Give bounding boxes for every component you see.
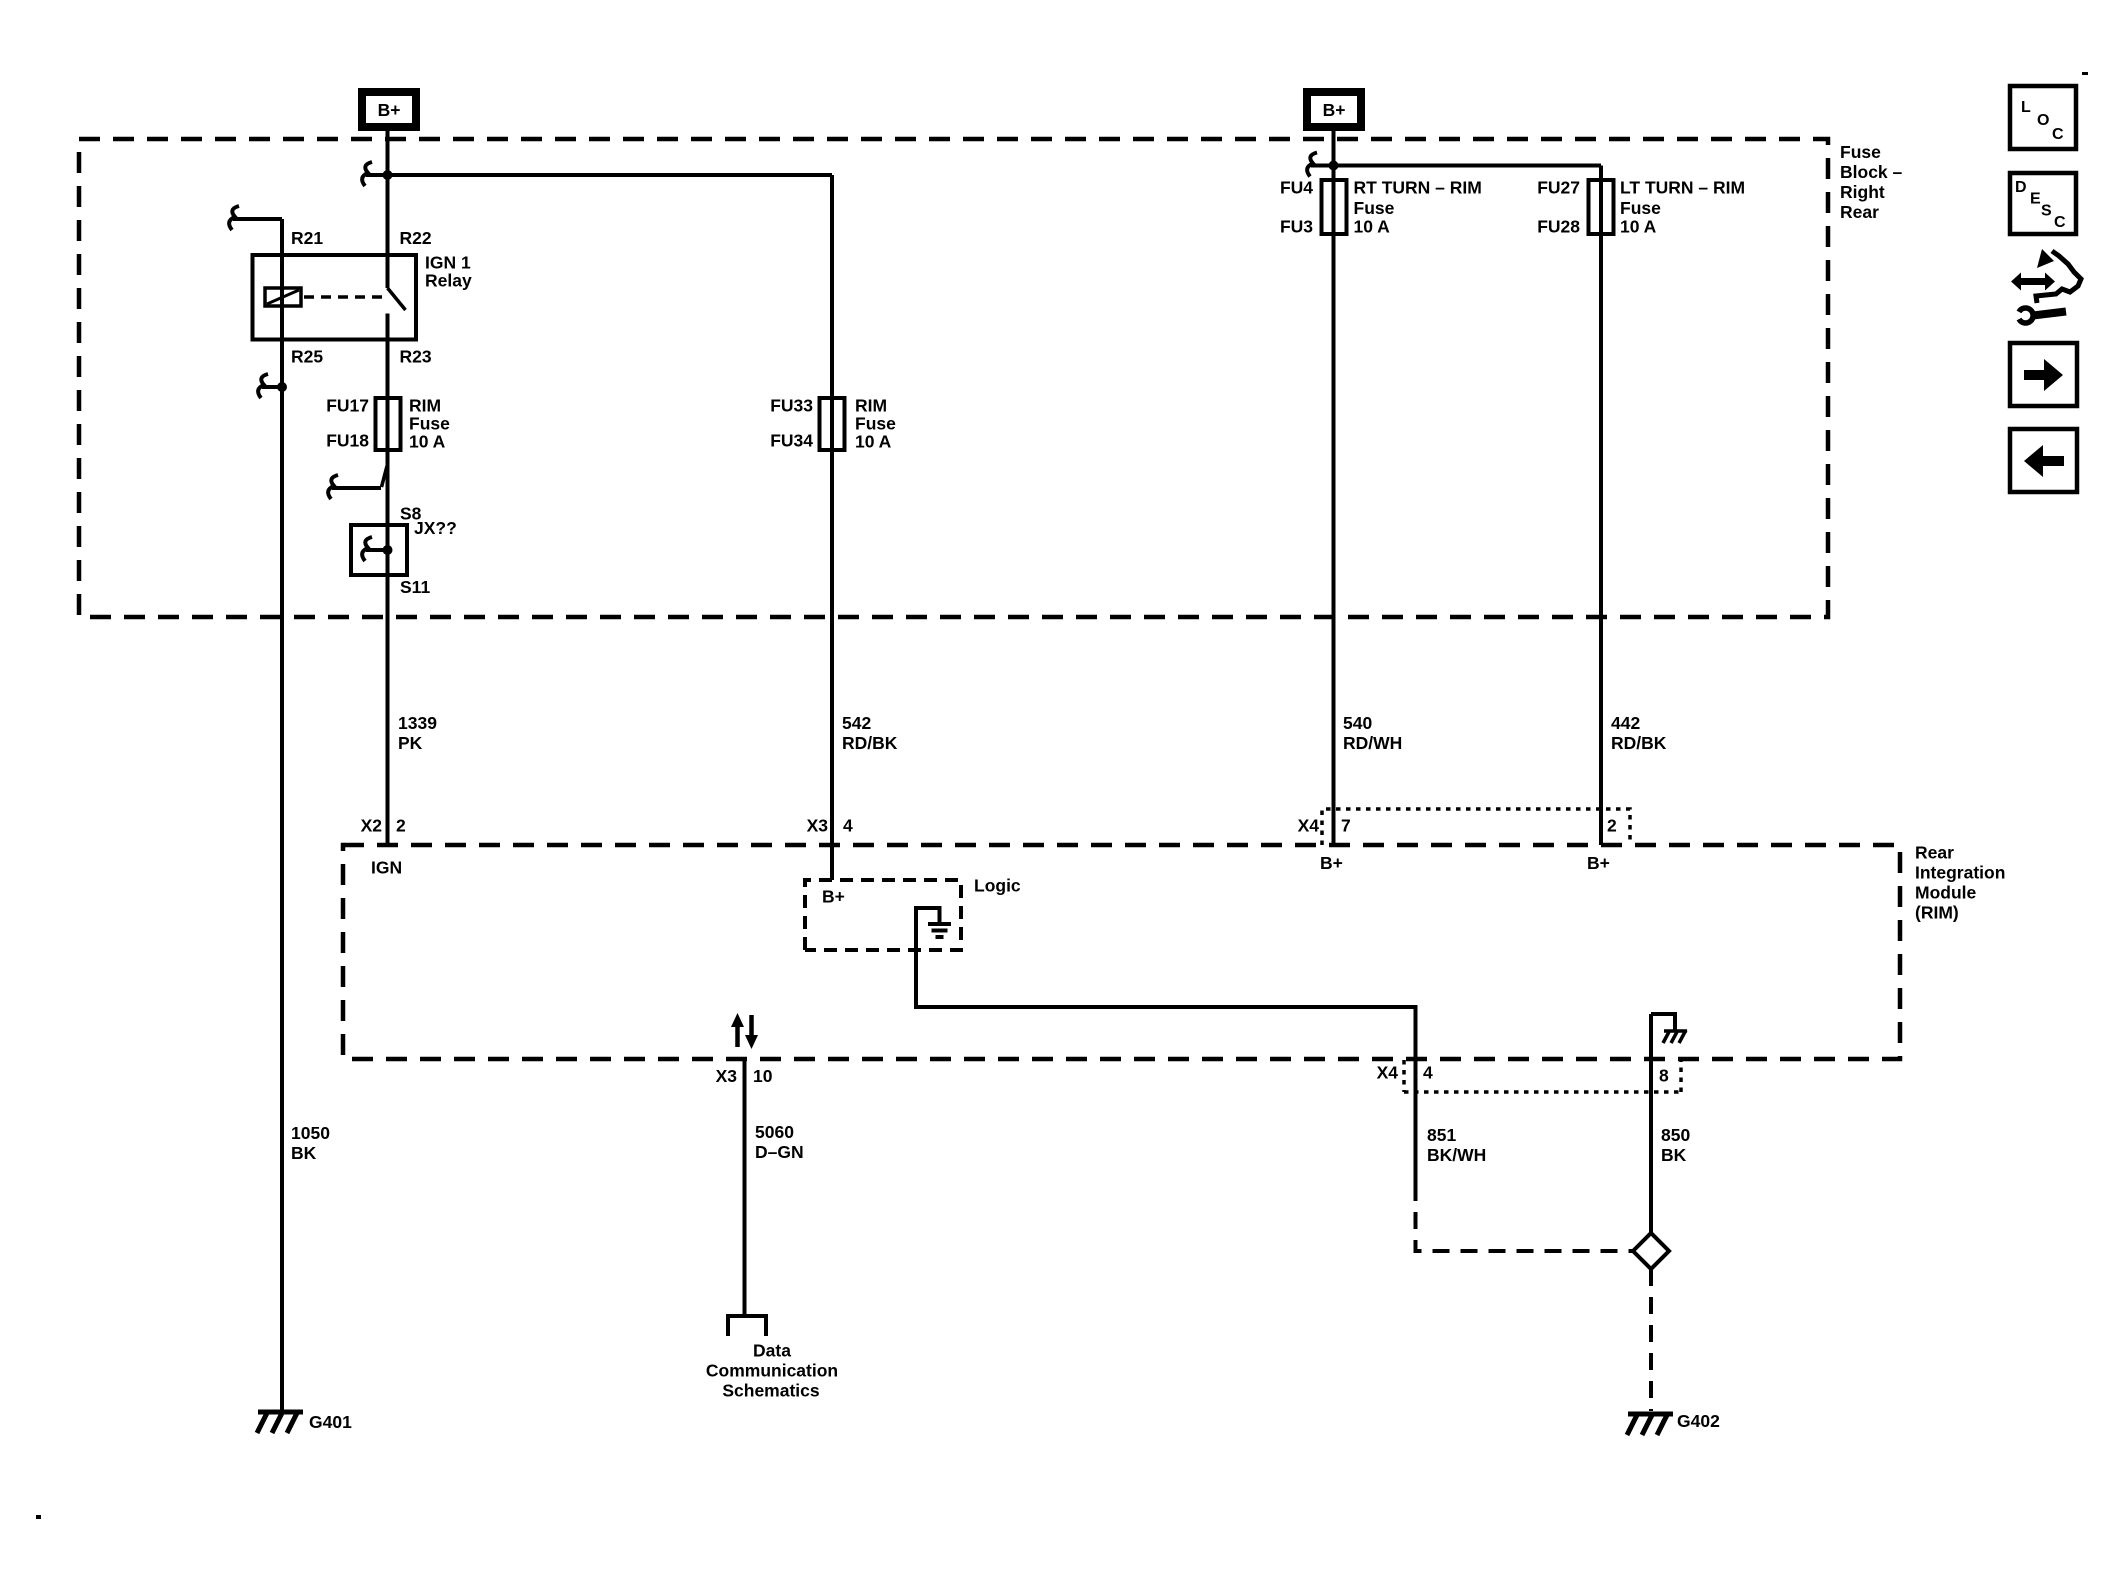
svg-text:S: S (2041, 203, 2052, 220)
svg-text:Fuse: Fuse (1840, 142, 1881, 162)
svg-text:LT TURN – RIM: LT TURN – RIM (1620, 178, 1745, 198)
svg-text:Fuse: Fuse (855, 414, 896, 434)
wire: FU33 branch down to logic box (830, 175, 834, 880)
power symbol B+ (right battery feed) (1303, 88, 1365, 131)
svg-text:Communication: Communication (706, 1361, 838, 1381)
wire: lower part of switch leg down to RIM connector (386, 314, 390, 846)
wire stub with hook inside junction block (366, 548, 388, 552)
svg-text:C: C (2052, 126, 2064, 143)
svg-text:FU18: FU18 (326, 431, 369, 451)
svg-text:BK: BK (1661, 1145, 1687, 1165)
icon next arrow button (2010, 343, 2077, 406)
wire: R21 feed with continuation hook (233, 219, 282, 1413)
svg-text:PK: PK (398, 733, 423, 753)
svg-text:FU33: FU33 (770, 396, 813, 416)
svg-text:FU4: FU4 (1280, 178, 1313, 198)
icon DESC button (2010, 173, 2076, 234)
dashed ground wire: splice to G402 (1649, 1269, 1653, 1411)
svg-text:FU17: FU17 (326, 396, 369, 416)
svg-text:Right: Right (1840, 182, 1885, 202)
splice diamond S402 (1633, 1233, 1669, 1269)
svg-text:FU34: FU34 (770, 431, 813, 451)
svg-text:850: 850 (1661, 1125, 1690, 1145)
chassis ground inside RIM (850 feed) (1651, 1014, 1687, 1043)
svg-text:O: O (2037, 112, 2049, 129)
svg-text:Rear: Rear (1915, 843, 1954, 863)
wire: logic ground to X4-4 (916, 906, 1416, 1184)
svg-text:S11: S11 (400, 577, 430, 597)
wire: X3-10 serial data down (743, 1059, 747, 1315)
svg-text:X2: X2 (361, 816, 383, 836)
svg-text:RT TURN – RIM: RT TURN – RIM (1354, 178, 1482, 198)
junction block JX?? (S8/S11) (351, 525, 407, 575)
svg-text:10 A: 10 A (1354, 217, 1391, 237)
svg-text:FU3: FU3 (1280, 217, 1313, 237)
svg-text:FU27: FU27 (1537, 178, 1580, 198)
svg-text:B+: B+ (378, 100, 401, 120)
ground G401 (257, 1411, 352, 1433)
svg-text:X4: X4 (1377, 1063, 1399, 1083)
serial data arrows at X3-10 (731, 1013, 758, 1049)
svg-text:2: 2 (1607, 816, 1617, 836)
svg-text:7: 7 (1341, 816, 1351, 836)
power symbol B+ (left battery feed) (358, 88, 420, 131)
node: junction dot inside block (383, 545, 393, 555)
svg-text:R22: R22 (400, 228, 432, 248)
svg-text:Fuse: Fuse (1620, 198, 1661, 218)
label Rear Integration Module (RIM) (1915, 843, 2005, 923)
wire stub with hook and junction on R25 leg (262, 385, 282, 389)
svg-text:10 A: 10 A (1620, 217, 1657, 237)
svg-text:10 A: 10 A (855, 432, 892, 452)
wire stub with continuation hook at B+ junction (366, 173, 388, 177)
splice S8 branch stub with hook (332, 486, 381, 490)
svg-text:B+: B+ (1320, 853, 1343, 873)
svg-text:X3: X3 (807, 816, 829, 836)
relay actuator dashed link (304, 295, 383, 299)
svg-text:2: 2 (396, 816, 406, 836)
fuse FU33/FU34 RIM Fuse 10 A (820, 398, 845, 450)
node: junction dot right B+ (1329, 161, 1339, 171)
off-page connector to Data Communication Schematics (728, 1316, 766, 1336)
svg-text:1339: 1339 (398, 713, 437, 733)
signal ground inside logic block (916, 908, 951, 937)
svg-text:X4: X4 (1298, 816, 1320, 836)
svg-text:1050: 1050 (291, 1123, 330, 1143)
wire: right B+ down to RIM X4-7 (1332, 129, 1336, 845)
svg-text:10 A: 10 A (409, 432, 446, 452)
wire stub with hook at right junction (1311, 164, 1334, 168)
svg-text:Rear: Rear (1840, 202, 1879, 222)
svg-text:BK: BK (291, 1143, 317, 1163)
svg-text:Block –: Block – (1840, 162, 1903, 182)
stray mark bottom left (36, 1515, 41, 1519)
svg-text:D: D (2015, 179, 2027, 196)
svg-text:Schematics: Schematics (722, 1381, 820, 1401)
svg-text:X3: X3 (716, 1066, 738, 1086)
svg-text:4: 4 (1423, 1063, 1433, 1083)
svg-text:Relay: Relay (425, 271, 472, 291)
ground G402 (1627, 1411, 1720, 1435)
svg-text:E: E (2030, 191, 2041, 208)
icon LOC button (2010, 86, 2076, 149)
svg-text:Fuse: Fuse (1354, 198, 1395, 218)
icon harness view (double arrow, outline, wrench) (2011, 249, 2081, 323)
wire: B+ down through relay switch to RIM X2-2 (386, 131, 390, 288)
svg-text:10: 10 (753, 1066, 773, 1086)
svg-text:Module: Module (1915, 883, 1977, 903)
relay IGN 1 Relay box (253, 255, 417, 340)
svg-text:FU28: FU28 (1537, 217, 1580, 237)
wire: horizontal bus from B+ junction to FU33 (388, 173, 833, 177)
svg-text:540: 540 (1343, 713, 1372, 733)
svg-text:C: C (2054, 214, 2066, 231)
svg-text:Logic: Logic (974, 876, 1021, 896)
svg-text:542: 542 (842, 713, 871, 733)
svg-text:851: 851 (1427, 1125, 1456, 1145)
icon back arrow button (2010, 429, 2077, 492)
svg-text:R25: R25 (291, 347, 323, 367)
svg-text:RD/BK: RD/BK (842, 733, 898, 753)
dashed ground wire: X4-4 to splice (1416, 1184, 1634, 1251)
svg-text:RIM: RIM (855, 396, 887, 416)
svg-text:IGN 1: IGN 1 (425, 253, 471, 273)
svg-text:442: 442 (1611, 713, 1640, 733)
logic block dashed box (805, 880, 961, 950)
svg-text:D–GN: D–GN (755, 1142, 804, 1162)
Rear Integration Module dashed outline (343, 845, 1900, 1059)
svg-text:B+: B+ (1323, 100, 1346, 120)
fuse FU4/FU3 RT TURN - RIM Fuse 10 A (1322, 180, 1347, 234)
svg-text:RD/BK: RD/BK (1611, 733, 1667, 753)
svg-text:4: 4 (843, 816, 853, 836)
svg-text:8: 8 (1659, 1066, 1669, 1086)
svg-text:RD/WH: RD/WH (1343, 733, 1402, 753)
svg-text:R23: R23 (400, 347, 432, 367)
wire: 850 BK down to splice diamond (1649, 1014, 1653, 1233)
fuse block dashed outline: Fuse Block - Right Rear (79, 139, 1828, 617)
svg-text:Integration: Integration (1915, 863, 2005, 883)
svg-text:Data: Data (753, 1341, 791, 1361)
svg-text:R21: R21 (291, 228, 323, 248)
svg-text:B+: B+ (1587, 853, 1610, 873)
relay switch arm (388, 288, 406, 310)
svg-text:B+: B+ (822, 887, 845, 907)
svg-text:Fuse: Fuse (409, 414, 450, 434)
wire: bus from right B+ junction to FU27 (1334, 166, 1602, 846)
svg-text:5060: 5060 (755, 1122, 794, 1142)
fuse FU27/FU28 LT TURN - RIM Fuse 10 A (1589, 180, 1614, 234)
fuse FU17/FU18 RIM Fuse 10 A (376, 398, 401, 450)
svg-text:G401: G401 (309, 1412, 352, 1432)
svg-text:JX??: JX?? (414, 518, 457, 538)
svg-text:L: L (2021, 99, 2031, 116)
svg-text:IGN: IGN (371, 858, 402, 878)
svg-text:G402: G402 (1677, 1411, 1720, 1431)
label Fuse Block - Right Rear (1840, 142, 1903, 222)
connector X4 pins 4 and 8 dotted box (1404, 1060, 1681, 1092)
svg-text:BK/WH: BK/WH (1427, 1145, 1486, 1165)
stray mark top right (2082, 72, 2088, 75)
relay coil (265, 288, 301, 306)
svg-text:RIM: RIM (409, 396, 441, 416)
connector X4 pins 7 and 2 dotted box (1322, 809, 1630, 845)
node: junction dot at B+ bus (383, 170, 393, 180)
node: junction dot on R25 leg (277, 382, 287, 392)
svg-text:(RIM): (RIM) (1915, 903, 1959, 923)
